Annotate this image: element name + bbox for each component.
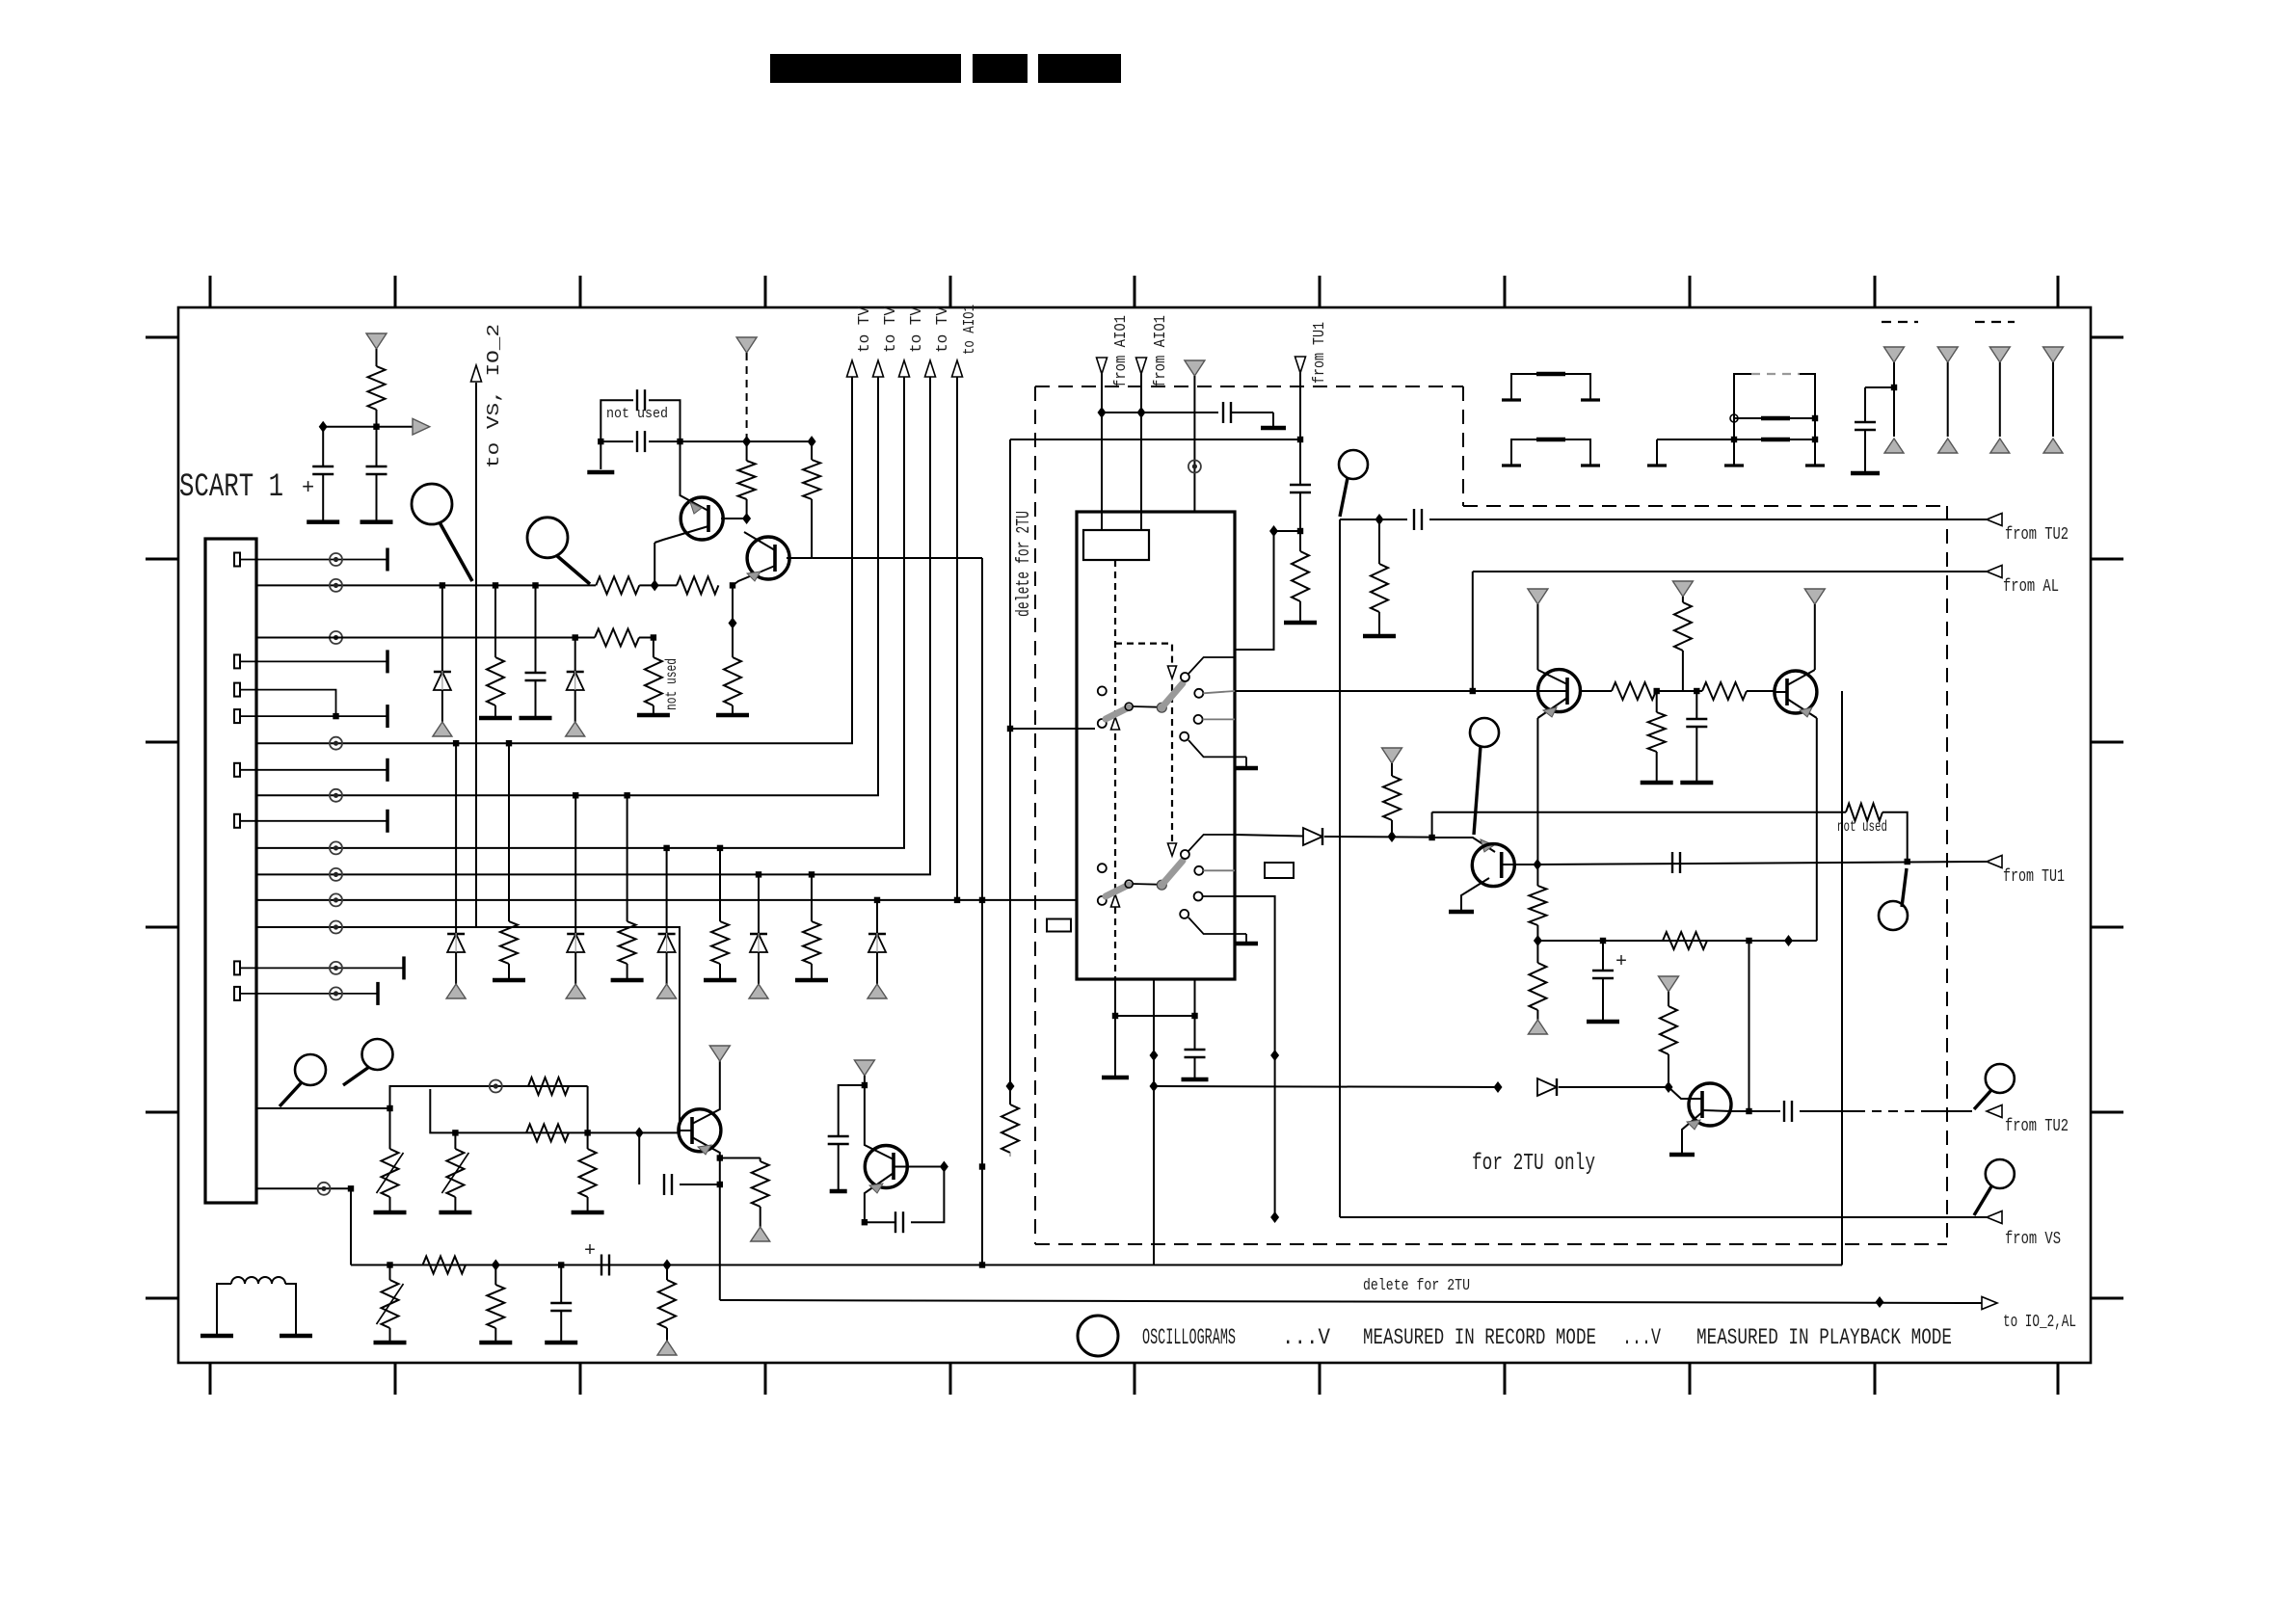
transistor Q1	[681, 497, 723, 540]
supply V10	[854, 1060, 874, 1076]
wire long vertical x1019	[981, 558, 983, 1265]
wire to IO_2 AL	[719, 1158, 721, 1301]
dashed control line 1	[1114, 560, 1116, 978]
to AIO1 arrow	[952, 360, 963, 377]
diode D7	[874, 897, 880, 903]
svg-text:SCART 1: SCART 1	[179, 469, 283, 506]
redacted title bar 3	[1038, 54, 1121, 83]
transistor Q6	[679, 1109, 721, 1152]
supply V6	[1672, 581, 1693, 597]
wire from AL	[1473, 571, 1987, 572]
wire to Q5 base	[1428, 835, 1434, 840]
diode D2 shunt	[574, 638, 576, 673]
svg-text:to AIO1: to AIO1	[961, 305, 979, 355]
transistor Q8	[1689, 1083, 1731, 1126]
wire SCART bottom row y1150	[256, 1107, 390, 1109]
IC switch SW2 lower	[1098, 864, 1107, 872]
resistor R8	[624, 792, 629, 798]
svg-text:delete for 2TU: delete for 2TU	[1363, 1277, 1470, 1295]
capacitor C3 shunt	[532, 582, 538, 588]
diode D4	[573, 792, 578, 798]
connector symbol P1 lower	[1511, 439, 1590, 466]
svg-text:...V: ...V	[1282, 1325, 1330, 1350]
redacted title bar 1	[770, 54, 961, 83]
svg-text:+: +	[1615, 951, 1627, 973]
wire VS into switch	[1235, 896, 1275, 1217]
transistor Q2	[747, 537, 789, 579]
resistor R3	[811, 441, 813, 460]
wire bus y825 to TV	[256, 377, 878, 795]
wire y1127	[390, 1086, 588, 1108]
wire Q2 emitter to x1019	[812, 557, 982, 559]
svg-text:from VS: from VS	[2005, 1230, 2061, 1249]
oscillogram circle M2	[527, 518, 568, 558]
resistor R13	[1299, 531, 1301, 551]
resistor R16	[1702, 682, 1747, 700]
diode D9	[1537, 1078, 1557, 1096]
capacitor C5 top right	[1864, 387, 1866, 421]
resistor R27 trim	[454, 1132, 456, 1149]
inter-board arrows top right	[1884, 347, 1905, 362]
border frame	[178, 307, 2091, 1363]
emitter resistor R29	[720, 1157, 761, 1159]
wire IC to Q3 base y717	[1235, 690, 1538, 692]
svg-text:from TU2: from TU2	[2005, 1117, 2069, 1136]
IC control block	[1083, 530, 1149, 560]
diode D3	[453, 740, 459, 746]
diode D1 shunt	[440, 582, 445, 588]
svg-text:...V: ...V	[1622, 1325, 1661, 1350]
diode D6	[756, 871, 761, 877]
small rect tag right	[1265, 863, 1294, 878]
svg-text:OSCILLOGRAMS: OSCILLOGRAMS	[1142, 1325, 1236, 1350]
capacitor C1 electrolytic	[322, 427, 324, 466]
svg-text:to TV: to TV	[934, 306, 952, 353]
wire from TU2 vertical x1390	[1339, 519, 1341, 1217]
not used resistor R21	[1431, 812, 1433, 838]
diode D5	[663, 845, 669, 851]
svg-text:for 2TU only: for 2TU only	[1472, 1151, 1595, 1177]
svg-text:to TV: to TV	[882, 306, 900, 353]
svg-text:+: +	[584, 1240, 596, 1263]
svg-text:MEASURED IN RECORD MODE: MEASURED IN RECORD MODE	[1363, 1325, 1596, 1350]
svg-text:+: +	[302, 476, 314, 500]
svg-text:not used: not used	[1837, 818, 1887, 836]
wire y428 to cap	[1102, 412, 1218, 413]
oscillogram circle M1	[412, 484, 452, 524]
connector symbol P1 upper	[1511, 374, 1590, 400]
resistor R31 trim	[389, 1265, 391, 1281]
svg-text:from TU1: from TU1	[2003, 867, 2065, 887]
from AIO1 arrow 1	[1097, 358, 1108, 374]
wire SCART pin2 bus y607	[256, 584, 596, 586]
dashed control line 2	[1115, 644, 1172, 673]
capacitor C7 electrolytic	[1600, 938, 1606, 944]
SCART no-connect pins with terminators	[234, 553, 240, 567]
wire from TU2 top y539	[1340, 519, 1407, 520]
resistor R20	[1383, 776, 1401, 820]
wire y1175 row	[430, 1089, 679, 1132]
svg-text:not used: not used	[663, 658, 681, 710]
resistor R2	[746, 441, 748, 461]
oscillogram circle M4	[1470, 718, 1499, 747]
resistor R6 shunt	[493, 582, 498, 588]
wire bus y907 to TV	[256, 377, 930, 874]
oscillogram circle M7	[1986, 1159, 2015, 1188]
capacitor C9 feedback	[638, 1132, 640, 1184]
wire Q1 base vertical	[654, 543, 655, 585]
resistor R25	[579, 1149, 597, 1197]
transistor Q4	[1775, 671, 1817, 713]
resistor R15 between Q3 Q4	[1581, 690, 1612, 692]
capacitor C2	[376, 427, 378, 466]
svg-text:from TU1: from TU1	[1311, 322, 1329, 384]
resistor R19	[1536, 941, 1538, 963]
wire SCART pin3 bus y661	[256, 637, 595, 639]
capacitor C11 emitter	[862, 1219, 868, 1225]
row3 resistor RB3	[595, 629, 639, 647]
oscillogram circle M6	[1986, 1064, 2015, 1093]
from AIO1 arrow 2	[1136, 358, 1147, 374]
not used coupling caps	[601, 400, 633, 441]
wire bus y934 to AIO1 and IC	[256, 899, 1077, 901]
wire Q5 collector from TU1	[1537, 862, 1987, 865]
wire y458 top rail	[681, 440, 813, 442]
svg-text:to IO_2,AL: to IO_2,AL	[2003, 1313, 2076, 1332]
capacitor C10	[839, 1085, 865, 1135]
dashed box delete for 2TU	[1034, 386, 1036, 1244]
not used resistor R5	[653, 638, 654, 658]
IC left pin wire y756	[1010, 728, 1095, 730]
wire jog to IC right	[1269, 525, 1278, 537]
resistor R24	[528, 1078, 569, 1095]
wire x1911 long vertical	[1841, 691, 1843, 1265]
supply V1 triangle	[366, 333, 387, 349]
resistor R23	[1660, 1006, 1677, 1054]
resistor R22	[1663, 932, 1707, 949]
resistor R12	[1378, 519, 1380, 564]
redacted title bar 2	[973, 54, 1028, 83]
oscillogram circle M3	[1339, 450, 1368, 479]
supply V7	[1382, 748, 1402, 763]
wire y976 row	[1537, 940, 1816, 942]
to VS IO_2 arrow	[475, 383, 477, 927]
supply V9	[709, 1046, 730, 1061]
svg-text:delete for 2TU: delete for 2TU	[1013, 511, 1034, 617]
IC bottom pins	[1114, 979, 1116, 1076]
wire cap feed vertical	[1749, 941, 1750, 1111]
base resistor RB1	[596, 576, 639, 594]
SCART pin 5 jog wire	[234, 683, 240, 697]
capacitor C4	[1299, 439, 1301, 484]
wire SCART bottom row y1233	[256, 1188, 351, 1264]
resistor R17 to ground	[1656, 691, 1658, 712]
resistor R7	[506, 740, 512, 746]
supply V2 dashed drop	[736, 337, 757, 353]
IC switch SW1 upper	[1098, 686, 1107, 695]
capacitor C8	[1731, 1110, 1749, 1112]
transistor Q5	[1472, 844, 1514, 887]
dashed control line 3	[1171, 684, 1173, 848]
bottom bus y1312	[351, 1264, 1842, 1266]
wire y1128 row	[1154, 1086, 1498, 1087]
wire y868 row	[1235, 835, 1303, 837]
legend oscillogram circle	[1078, 1316, 1118, 1356]
svg-text:from TU2: from TU2	[2005, 525, 2069, 545]
resistor R30 series	[423, 1257, 467, 1274]
svg-text:not used: not used	[606, 406, 668, 422]
capacitor C6 to ground	[1695, 691, 1697, 718]
node arrow right	[323, 426, 415, 428]
oscillogram circle M5	[1879, 901, 1908, 930]
inductor L1	[217, 1277, 296, 1291]
transistor Q3	[1538, 670, 1581, 712]
svg-text:to TV: to TV	[856, 306, 874, 353]
svg-text:from AIO1: from AIO1	[1112, 315, 1131, 387]
to TV arrows	[847, 360, 858, 377]
resistor R1	[376, 349, 378, 366]
resistor R4 below Q2 base	[732, 585, 734, 623]
supply V4	[1528, 589, 1548, 604]
diode D8	[1303, 828, 1322, 845]
resistor R33	[666, 1265, 668, 1281]
wire bus y771 to TV	[256, 377, 852, 743]
oscillogram circle M8	[295, 1054, 326, 1085]
supply V8	[1659, 976, 1679, 992]
resistor R11	[1001, 1104, 1019, 1153]
from TU1 top entry	[1295, 357, 1306, 373]
svg-text:from AL: from AL	[2003, 577, 2059, 597]
oscillogram circle M9	[362, 1039, 393, 1070]
svg-text:from AIO1: from AIO1	[1152, 315, 1170, 387]
supply V3 into IC	[1185, 360, 1205, 376]
small rect tag left	[1047, 919, 1071, 932]
wire bus y962 down	[256, 927, 680, 1132]
resistor R9	[717, 845, 723, 851]
IC switch box U1	[1077, 512, 1235, 979]
supply V5	[1804, 589, 1825, 604]
frame tick marks	[209, 276, 212, 307]
wire from VS	[1340, 1216, 1987, 1218]
resistor R28 trim	[387, 1105, 392, 1111]
svg-text:to TV: to TV	[908, 306, 926, 353]
ground below not used caps	[600, 441, 601, 469]
resistor R14	[1674, 602, 1692, 651]
resistor R10	[809, 871, 814, 877]
capacitor C13	[560, 1265, 562, 1303]
resistor R26	[526, 1124, 569, 1141]
svg-text:MEASURED IN PLAYBACK MODE: MEASURED IN PLAYBACK MODE	[1696, 1325, 1952, 1350]
svg-text:to VS, IO_2: to VS, IO_2	[485, 324, 504, 468]
base resistor RB2	[677, 576, 718, 594]
resistor R18	[1529, 886, 1546, 925]
wire bus y880 to TV	[256, 377, 904, 848]
wire y456 with vertical x1048	[1010, 439, 1300, 440]
wire Q3 emitter chain	[1536, 718, 1538, 886]
wire y1054 below IC	[1115, 1015, 1195, 1017]
connector symbol P2	[1734, 374, 1751, 418]
transistor Q7	[865, 1146, 907, 1188]
SCART connector J1 body	[205, 539, 256, 1203]
resistor R32	[494, 1265, 496, 1286]
wire Q4 emitter down	[1816, 718, 1818, 941]
